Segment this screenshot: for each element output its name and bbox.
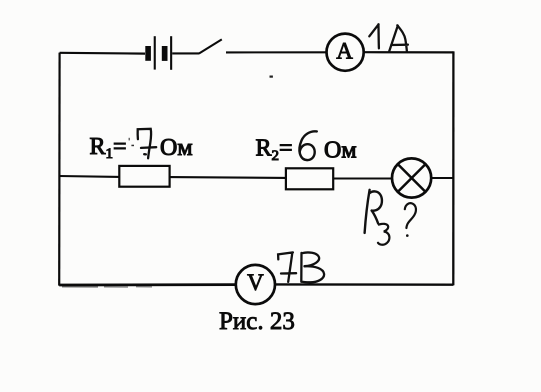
svg-text:R2=: R2= — [256, 136, 293, 164]
wire: right vertical — [452, 51, 454, 285]
wire: lamp to right vertical — [431, 177, 453, 179]
speck far left of handwritten 7 — [129, 138, 130, 141]
svg-text:Ом: Ом — [160, 135, 193, 161]
wire: top left horizontal to battery — [60, 52, 145, 55]
wire: ammeter to top right corner — [364, 51, 454, 53]
speck (scan artifact) — [270, 76, 273, 78]
ammeter PA1 circle — [327, 34, 364, 71]
handwritten value 7 of R1 — [138, 129, 157, 159]
handwritten 1 of current value 1A — [369, 24, 379, 48]
handwritten А of current value 1A — [389, 25, 408, 51]
wire: battery to switch — [172, 52, 199, 54]
svg-text:R1=: R1= — [90, 134, 127, 162]
handwritten question mark — [405, 203, 416, 228]
battery GB1: thick plate 1 (negative) — [145, 46, 151, 61]
wire: R2 to lamp — [333, 177, 392, 179]
wire: left vertical — [58, 53, 61, 286]
svg-text:V: V — [247, 270, 264, 295]
svg-text:A: A — [336, 39, 353, 64]
lamp HL1 circle — [392, 158, 431, 197]
handwritten question mark dot — [406, 234, 409, 237]
handwritten 7 of voltage value 7В — [278, 252, 296, 282]
handwritten В of voltage value 7В — [301, 252, 324, 282]
scan smear under bottom-left wire — [62, 286, 152, 288]
speck left of handwritten 7 — [131, 145, 134, 147]
svg-text:Рис. 23: Рис. 23 — [219, 308, 295, 335]
battery GB1: thick plate 2 (negative) — [162, 46, 168, 61]
resistor R2 body — [286, 168, 333, 189]
voltmeter PV1 circle — [236, 265, 275, 304]
handwritten R3 annotation: letter R — [365, 190, 382, 233]
wire: switch to ammeter — [226, 51, 327, 53]
battery GB1: thin plate 2 (positive) — [170, 36, 172, 70]
wire: voltmeter to bottom right corner — [275, 283, 453, 286]
svg-text:Ом: Ом — [324, 137, 357, 163]
wire: R1 to R2 — [170, 176, 286, 179]
wire: bottom left horizontal — [59, 283, 236, 286]
wire: middle left horizontal — [59, 175, 120, 178]
handwritten value 6 of R2 — [299, 131, 316, 160]
resistor R1 body — [119, 166, 169, 187]
lamp HL1 cross diagonal 2 — [398, 164, 426, 192]
handwritten R3 annotation: subscript 3 — [378, 224, 389, 245]
switch S1 (open blade) — [199, 39, 222, 53]
battery GB1: thin plate 1 (positive) — [154, 36, 156, 69]
lamp HL1 cross diagonal 1 — [398, 164, 426, 192]
